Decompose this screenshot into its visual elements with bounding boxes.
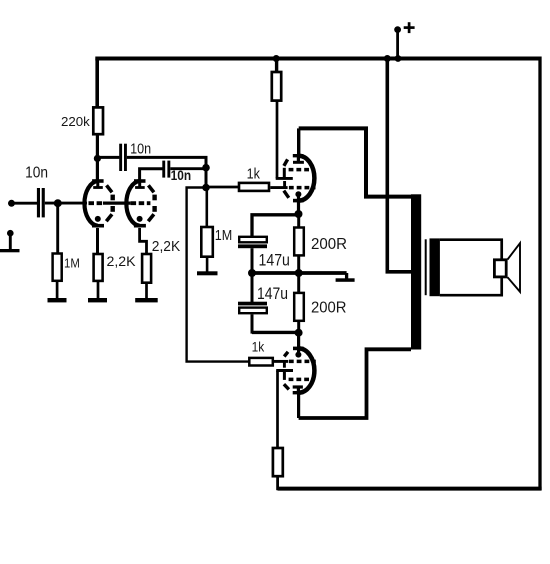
svg-text:2,2K: 2,2K bbox=[107, 254, 136, 269]
pentode U3 envelope solid right arc bbox=[299, 156, 315, 201]
triode V2 bbox=[126, 181, 154, 226]
wire V1 cathode to R3 bbox=[96, 228, 99, 254]
wire bottom rail bbox=[278, 487, 542, 491]
transformer T1 secondary winding bar bbox=[430, 238, 440, 296]
resistor R7 1k bbox=[239, 183, 269, 191]
triode V2 envelope dash tick right lower bbox=[152, 206, 156, 212]
wire 220k top stub bbox=[95, 59, 99, 108]
wire input to C1 bbox=[11, 202, 37, 205]
pentode U4 cathode wire bbox=[297, 333, 300, 352]
pentode U3 envelope top bar bbox=[293, 154, 304, 157]
node mid rail left junction bbox=[248, 269, 256, 277]
svg-text:200R: 200R bbox=[311, 236, 347, 253]
wire U3 cathode to R8 bbox=[297, 214, 300, 228]
svg-text:10n: 10n bbox=[130, 141, 151, 157]
pentode U4 envelope dash tick top left bbox=[284, 352, 288, 357]
pentode U4 envelope solid right arc bbox=[299, 348, 315, 392]
pentode U4 cathode dot bbox=[295, 352, 301, 358]
triode V1 bbox=[84, 181, 112, 226]
pentode U3 screen grid dashes bbox=[289, 168, 315, 172]
node B+ terminal dot bbox=[394, 26, 401, 33]
triode V2 grid dashes bbox=[131, 201, 151, 205]
wire V2 plate to C3 bbox=[140, 169, 163, 181]
wire mid rail to C5 bbox=[251, 273, 254, 302]
svg-text:1M: 1M bbox=[64, 256, 80, 271]
wire R11 to bottom rail bbox=[276, 476, 279, 490]
pentode U3 cathode dot bbox=[295, 191, 301, 197]
svg-text:2,2K: 2,2K bbox=[152, 239, 181, 255]
wire U4 screen tap bbox=[283, 371, 286, 380]
wire node A to node B bbox=[205, 168, 208, 188]
pentode U3 envelope dash tick top left bbox=[284, 159, 288, 166]
ground input terminal bbox=[0, 230, 20, 252]
pentode U4 envelope top bar bbox=[293, 347, 304, 351]
node B junction bbox=[202, 184, 210, 192]
triode V2 envelope solid left arc bbox=[126, 181, 139, 226]
triode V1 bottom bar bbox=[92, 224, 104, 228]
wire R3 to ground bbox=[97, 281, 100, 299]
capacitor C4 147u negative plate bbox=[238, 244, 267, 248]
pentode U4 plate stub bbox=[297, 387, 300, 393]
svg-text:1M: 1M bbox=[215, 227, 233, 244]
transformer T1 primary winding bar bbox=[411, 194, 421, 349]
resistor R9 200R bbox=[294, 293, 304, 321]
capacitor C1 10n plates bbox=[37, 188, 40, 217]
triode V1 envelope dash tick right lower bbox=[110, 206, 114, 212]
transformer T1 core line bbox=[425, 239, 427, 295]
wire C2 right lead to node A bbox=[127, 157, 206, 166]
triode V2 plate bar bbox=[135, 186, 145, 189]
wire junction to R2 1M bbox=[56, 203, 59, 253]
wire mid rail to R9 bbox=[297, 273, 300, 293]
svg-text:10n: 10n bbox=[171, 168, 192, 183]
wire C4 to mid rail bbox=[251, 248, 254, 273]
triode V1 envelope dash tick top right bbox=[107, 185, 113, 192]
svg-text:147u: 147u bbox=[257, 285, 288, 303]
resistor R10 1k (lower driver grid stopper) bbox=[249, 358, 272, 366]
ground below R3 bbox=[88, 298, 107, 302]
triode V2 envelope dash tick top right bbox=[148, 185, 154, 192]
wire U4 plate to transformer bottom tap bbox=[299, 349, 411, 418]
pentode U3 bottom bar bbox=[293, 199, 304, 203]
wire 220k bottom to triode V1 plate bbox=[96, 135, 99, 181]
pentode U3 plate wire bbox=[297, 128, 300, 155]
pentode U4 plate bar bbox=[293, 385, 303, 388]
pentode U3 plate stub bbox=[297, 156, 300, 163]
node U3 cathode junction bbox=[295, 210, 303, 218]
svg-text:1k: 1k bbox=[247, 166, 261, 182]
wire U3 plate to transformer top tap bbox=[299, 128, 411, 196]
wire V2 cathode jog to R4 bbox=[140, 228, 147, 254]
node junction rail/center-tap bbox=[384, 55, 391, 62]
triode V1 plate stub bbox=[96, 181, 99, 188]
ground below R2 bbox=[48, 298, 67, 302]
node input terminal bbox=[8, 200, 15, 207]
wire node B to lower 1k (long left drop) bbox=[187, 188, 249, 362]
pentode U3 cathode wire bbox=[297, 196, 300, 214]
node junction rail/+ bbox=[395, 55, 402, 62]
triode V1 envelope top bar bbox=[92, 179, 104, 183]
wire grid link V1-V2 bbox=[103, 201, 131, 204]
wire right edge bbox=[538, 57, 541, 491]
triode V2 envelope dash tick right upper bbox=[152, 195, 156, 201]
ground mid rail bbox=[345, 273, 348, 280]
svg-text:1k: 1k bbox=[252, 340, 265, 355]
node mid rail right junction bbox=[295, 269, 303, 277]
capacitor C4 147u positive plate bbox=[239, 237, 267, 243]
svg-text:200R: 200R bbox=[311, 299, 347, 316]
node junction grid/R2 bbox=[54, 199, 62, 207]
wire cathode rail to C4 bbox=[252, 215, 299, 236]
wire node B to R7 1k bbox=[206, 186, 238, 189]
pentode U4 plate wire bbox=[297, 393, 300, 418]
wire rail to R5 bbox=[275, 59, 278, 73]
resistor R5 screen upper bbox=[272, 72, 281, 101]
triode V1 grid dashes bbox=[89, 201, 104, 205]
wire C1 to V1 grid bbox=[45, 202, 87, 205]
capacitor C2 10n plates bbox=[119, 144, 122, 171]
node junction V1 plate / C2 bbox=[94, 155, 101, 162]
speaker LS1 horn bbox=[508, 243, 521, 292]
wire C5 to lower rail bbox=[251, 314, 254, 333]
resistor R2 1M bbox=[53, 254, 62, 281]
wire R9 to lower rail bbox=[297, 321, 300, 334]
node A junction bbox=[202, 164, 210, 172]
triode V1 envelope solid left arc bbox=[84, 181, 97, 226]
resistor R3 2,2K bbox=[94, 254, 103, 281]
triode V2 envelope dash tick bottom right bbox=[148, 214, 154, 221]
triode V2 cathode dot bbox=[137, 216, 143, 222]
svg-text:220k: 220k bbox=[61, 114, 90, 129]
wire top B+ rail bbox=[95, 57, 540, 61]
resistor R4 2,2K bbox=[142, 254, 151, 283]
triode V2 envelope top bar bbox=[134, 179, 146, 183]
pentode U3 (upper output tube) bbox=[284, 128, 316, 214]
wire lower cathode rail bbox=[252, 331, 299, 334]
svg-text:10n: 10n bbox=[25, 164, 48, 181]
triode V1 plate bar bbox=[93, 186, 103, 189]
capacitor C3 10n plates bbox=[162, 161, 165, 178]
node U4 cathode junction bbox=[295, 329, 303, 337]
speaker LS1 driver square bbox=[494, 260, 506, 277]
wire R7 to U3 control grid bbox=[270, 186, 287, 189]
pentode U3 plate bar bbox=[293, 161, 304, 164]
wire B+ to transformer center tap bbox=[387, 59, 411, 272]
pentode U4 envelope bottom bar bbox=[293, 391, 304, 394]
resistor R8 200R bbox=[294, 228, 304, 256]
capacitor C5 147u negative plate bbox=[238, 302, 267, 306]
triode V1 cathode dot bbox=[95, 216, 101, 222]
wire mid rail bbox=[252, 271, 347, 275]
speaker LS1 box bbox=[440, 240, 502, 296]
resistor R6 1M bbox=[201, 227, 213, 257]
wire R4 to ground bbox=[145, 283, 148, 299]
pentode U3 control grid dashes bbox=[289, 186, 316, 190]
ground below R6 bbox=[197, 271, 218, 275]
svg-text:147u: 147u bbox=[259, 252, 290, 270]
wire C3 right lead bbox=[170, 167, 206, 170]
triode V1 envelope dash tick right upper bbox=[110, 195, 114, 201]
triode V1 envelope dash tick bottom right bbox=[106, 214, 112, 221]
triode V2 bottom bar bbox=[134, 224, 146, 228]
pentode U4 (lower output tube) bbox=[284, 333, 316, 418]
wire R5 to U3 screen grid bbox=[276, 101, 279, 179]
wire R6 to ground bbox=[206, 257, 209, 272]
capacitor C5 147u positive plate bbox=[239, 308, 267, 314]
wire R8 to mid rail bbox=[297, 255, 300, 273]
node junction rail/R5 bbox=[273, 55, 280, 62]
resistor R11 screen lower bbox=[273, 448, 283, 476]
pentode U4 envelope dash tick bottom left bbox=[284, 384, 289, 389]
wire C2 left lead bbox=[97, 156, 119, 159]
ground below R4 bbox=[135, 298, 158, 302]
label + (plus sign) bbox=[404, 22, 415, 33]
triode V2 plate stub bbox=[138, 181, 141, 188]
pentode U4 control grid dashes bbox=[289, 360, 316, 364]
resistor R1 220k bbox=[93, 107, 103, 134]
pentode U4 screen grid dashes bbox=[289, 378, 315, 382]
wire R10 to U4 control grid bbox=[273, 360, 288, 363]
wire B+ terminal to rail bbox=[396, 30, 399, 59]
pentode U3 envelope dash tick bottom left bbox=[284, 191, 289, 198]
wire R2 to ground bbox=[56, 281, 59, 299]
wire node B to R6 1M bbox=[206, 188, 209, 228]
